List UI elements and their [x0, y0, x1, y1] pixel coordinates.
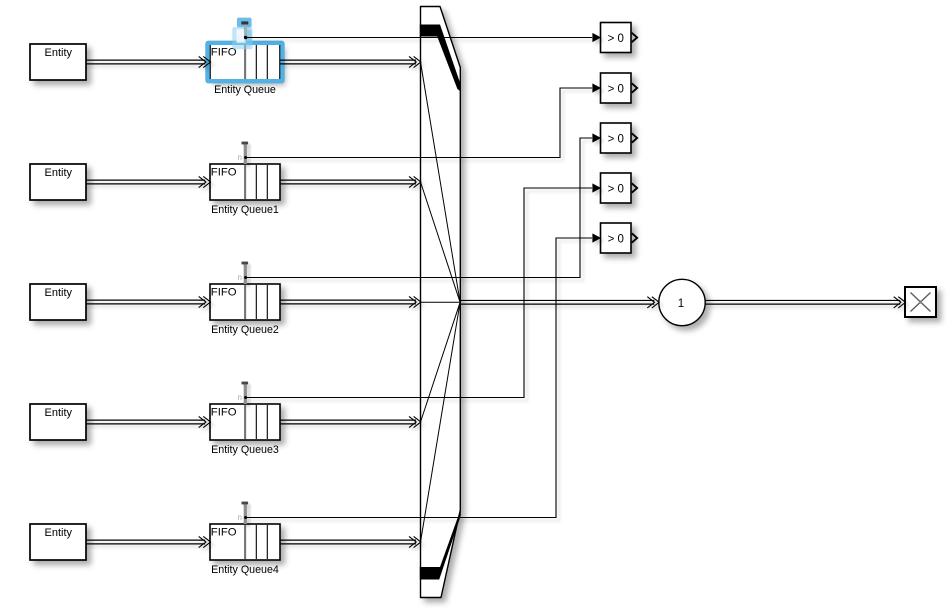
- svg-text:FIFO: FIFO: [211, 526, 237, 538]
- svg-text:n: n: [238, 393, 242, 402]
- svg-text:> 0: > 0: [608, 134, 624, 146]
- svg-text:> 0: > 0: [608, 234, 624, 246]
- svg-text:Entity Queue3: Entity Queue3: [211, 444, 279, 456]
- svg-text:Entity: Entity: [45, 167, 73, 179]
- svg-text:Entity: Entity: [45, 47, 73, 59]
- svg-text:Entity Queue: Entity Queue: [214, 84, 276, 96]
- svg-text:FIFO: FIFO: [211, 286, 237, 298]
- svg-text:1: 1: [678, 298, 684, 310]
- svg-text:Entity Queue4: Entity Queue4: [211, 564, 279, 576]
- svg-text:n: n: [238, 513, 242, 522]
- svg-text:FIFO: FIFO: [211, 406, 237, 418]
- svg-text:Entity: Entity: [45, 287, 73, 299]
- svg-text:n: n: [238, 273, 242, 282]
- svg-text:Entity Queue1: Entity Queue1: [211, 204, 279, 216]
- svg-text:n: n: [238, 153, 242, 162]
- svg-text:Entity: Entity: [45, 407, 73, 419]
- svg-text:> 0: > 0: [608, 84, 624, 96]
- svg-text:Entity Queue2: Entity Queue2: [211, 324, 279, 336]
- svg-text:FIFO: FIFO: [211, 166, 237, 178]
- svg-text:Entity: Entity: [45, 527, 73, 539]
- svg-text:> 0: > 0: [608, 184, 624, 196]
- svg-text:> 0: > 0: [608, 33, 624, 45]
